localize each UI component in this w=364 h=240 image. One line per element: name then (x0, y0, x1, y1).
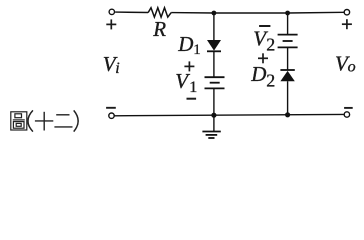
wire branch2 bottom (287, 81, 289, 115)
minus sign output (344, 107, 353, 109)
node junction bottom ground (211, 113, 216, 118)
svg-text:D: D (177, 32, 193, 56)
svg-text:2: 2 (266, 35, 275, 55)
plus sign output (342, 19, 352, 29)
plus sign V2 (258, 53, 268, 63)
top wire (115, 11, 344, 14)
svg-text:V: V (175, 69, 190, 93)
diode D2 (280, 70, 294, 81)
svg-text:R: R (152, 17, 166, 41)
caption character ten (35, 112, 53, 131)
wire branch1 top (213, 13, 215, 40)
label V1 (175, 69, 197, 96)
svg-text:1: 1 (189, 79, 197, 96)
label Vo (335, 51, 356, 75)
resistor R (148, 8, 171, 17)
minus sign V2 (259, 25, 270, 27)
terminal bottom-left (109, 113, 114, 118)
wire branch2 top (287, 13, 289, 35)
terminal top-right (344, 10, 349, 15)
label V2 (253, 27, 275, 55)
caption close paren (74, 110, 78, 131)
battery V1 (205, 77, 225, 88)
label D2 (250, 62, 275, 91)
node junction top-left branch (212, 11, 217, 16)
plus sign input (106, 19, 116, 29)
terminal bottom-right (344, 112, 349, 117)
caption open paren (28, 110, 33, 131)
wire branch1 mid (213, 51, 215, 77)
svg-text:1: 1 (193, 42, 201, 58)
caption tu bottom inner line (16, 123, 21, 126)
battery V2 (278, 35, 298, 48)
svg-text:D: D (250, 62, 266, 86)
wire branch1 bottom (213, 88, 215, 115)
node junction bottom-right branch (285, 112, 290, 117)
label Vi (103, 52, 120, 77)
caption tu middle line (13, 119, 25, 121)
caption tu top inner box (15, 114, 22, 118)
bottom wire (114, 114, 344, 115)
minus sign V1 (187, 98, 197, 100)
caption character two (54, 115, 72, 127)
terminal top-left (109, 9, 114, 14)
svg-text:i: i (115, 60, 119, 77)
label D1 (177, 32, 201, 58)
caption tu bottom box (13, 122, 24, 129)
svg-text:2: 2 (266, 70, 275, 90)
node junction top-right branch (285, 11, 290, 16)
wire branch2 mid (287, 47, 289, 70)
ground (202, 115, 220, 138)
diode D1 (207, 40, 221, 51)
svg-text:o: o (348, 59, 356, 76)
minus sign input (106, 107, 116, 109)
plus sign V1 (184, 61, 194, 71)
caption figure 12 character tu outer box (11, 112, 27, 130)
